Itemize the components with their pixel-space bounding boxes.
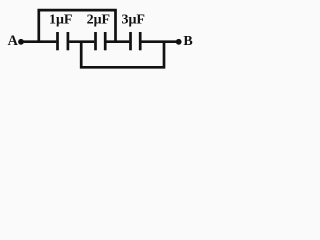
svg-text:1μF: 1μF [49, 13, 73, 28]
svg-text:A: A [8, 33, 19, 49]
svg-text:3μF: 3μF [122, 13, 146, 28]
svg-text:B: B [183, 34, 192, 49]
svg-text:2μF: 2μF [87, 13, 111, 28]
